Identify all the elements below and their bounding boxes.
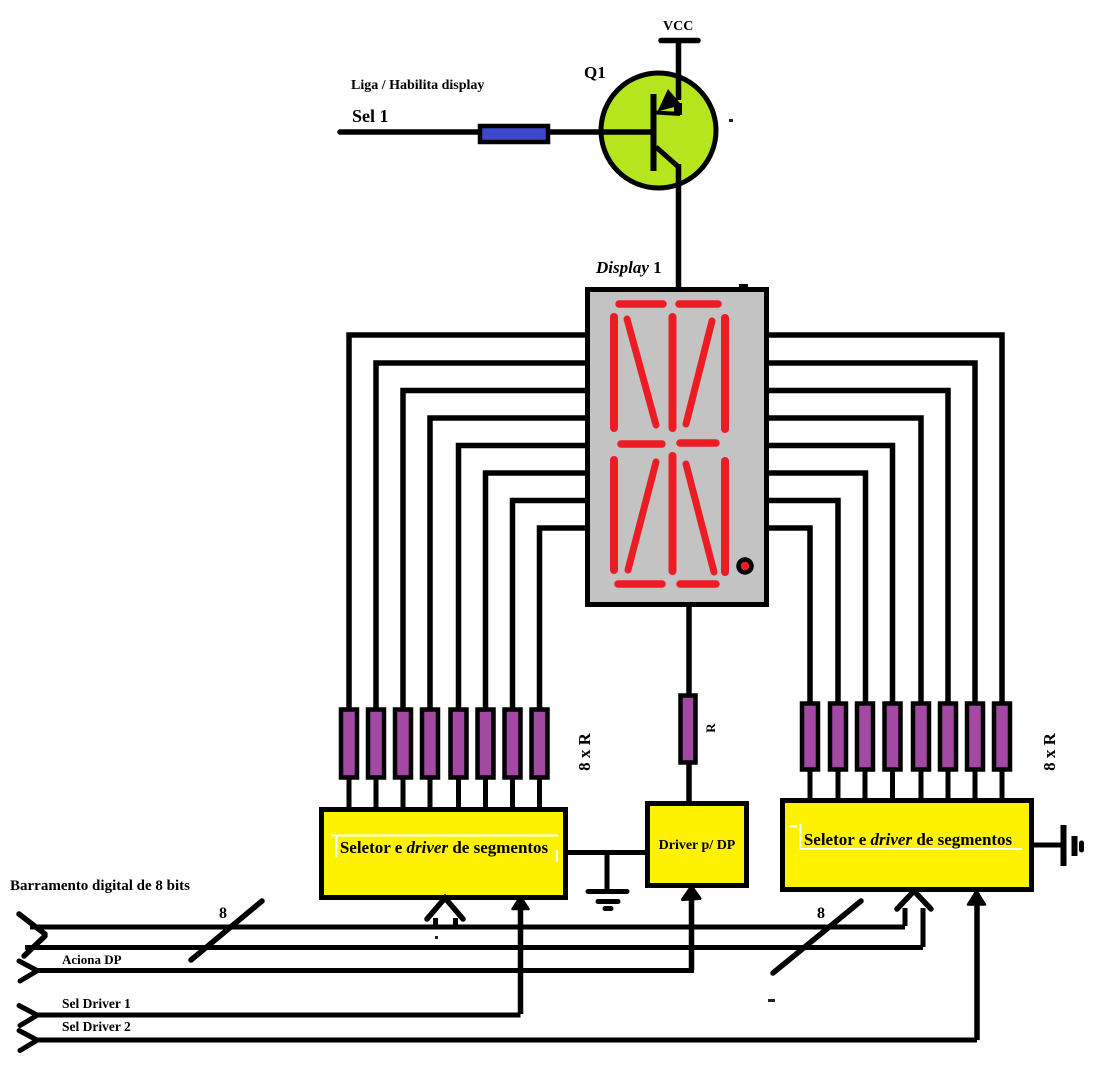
wire display pin R6 (767, 473, 866, 703)
block Seletor e driver de segmentos (right) (783, 801, 1032, 890)
resistor bank left R2 (368, 710, 384, 778)
ground (right, sideways) (1064, 825, 1082, 866)
resistor bank left R3 (395, 710, 411, 778)
arrow Sel Driver 1 into left selector (513, 897, 529, 1015)
label Sel 1 (352, 106, 389, 126)
segment L diagonal bottom-left (628, 462, 656, 570)
display body (588, 290, 767, 605)
wire display pin R7 (767, 501, 838, 704)
wire display pin R2 (767, 363, 975, 703)
segment G2 middle-right (680, 439, 716, 447)
transistor Q1 emitter foot line (656, 113, 680, 115)
label Seletor e driver de segmentos (right) (804, 830, 1013, 849)
svg-text:Sel Driver 1: Sel Driver 1 (62, 996, 131, 1011)
label R (703, 723, 718, 733)
resistor bank right R5 (913, 704, 929, 770)
wire display pin R1 (767, 335, 1002, 703)
label Liga / Habilita display (351, 78, 484, 93)
wire display pin L2 (376, 363, 587, 709)
segment B right vertical top (721, 318, 729, 429)
wire Q1 collector to display (676, 164, 682, 289)
resistor bank left R5 (451, 710, 467, 778)
segment J middle vertical top (669, 317, 677, 428)
label Display 1 (595, 258, 662, 277)
label Sel Driver 2 (62, 1019, 131, 1034)
segment M middle vertical bottom (669, 456, 677, 571)
label Sel Driver 1 (62, 996, 131, 1011)
label Seletor e driver de segmentos (left) (340, 838, 549, 857)
label 8 left (219, 905, 227, 922)
block Driver p/ DP (648, 804, 747, 886)
wire display pin L4 (430, 418, 587, 709)
wire display pin L7 (513, 501, 588, 710)
label 8 right (817, 905, 825, 922)
label Barramento digital de 8 bits (10, 878, 190, 894)
block Seletor e driver de segmentos (left) (322, 810, 566, 898)
right box paste artifact white lines (790, 824, 1022, 850)
wire display pin L1 (349, 335, 587, 709)
transistor Q1 base bar (651, 94, 657, 171)
segment K diagonal top-right (686, 321, 712, 424)
stray dot below left arrow (435, 936, 438, 939)
resistor bank right R4 (885, 704, 901, 770)
svg-text:Seletor e driver de segmentos: Seletor e driver de segmentos (804, 830, 1013, 849)
svg-text:VCC: VCC (663, 19, 693, 34)
wire display DP pin down (686, 605, 692, 697)
svg-text:Sel Driver 2: Sel Driver 2 (62, 1019, 131, 1034)
resistor base (blue) (480, 126, 548, 142)
wire display pin L6 (486, 473, 588, 709)
bus line A (8-bit data) (19, 914, 905, 956)
svg-text:Liga / Habilita display: Liga / Habilita display (351, 78, 484, 93)
segment G1 middle-left (621, 440, 662, 448)
wire right box to ground (1031, 843, 1061, 848)
wires left resistors to selector box (349, 777, 540, 809)
wire VCC to Q1 emitter (676, 42, 682, 100)
label 8 x R left (575, 732, 594, 771)
transistor Q1 body (601, 73, 716, 188)
stray dash left of slash right (768, 999, 775, 1002)
left box paste artifact white lines (331, 836, 558, 863)
stray dash above display corner (739, 284, 748, 287)
label Aciona DP (62, 952, 122, 967)
bus slash right (773, 901, 861, 973)
resistor bank right R6 (940, 704, 956, 770)
wire R to driver box (686, 762, 692, 803)
wire display pin R4 (767, 418, 921, 703)
wires right resistors to selector box (810, 769, 1002, 800)
bus line B (25, 945, 923, 950)
label Q1 (584, 63, 606, 82)
stray dot right of Q1 (729, 119, 733, 122)
segment F left vertical top (610, 317, 618, 428)
bus line D Sel Driver 1 (19, 1006, 521, 1026)
segment D1 bottom-left (618, 580, 662, 588)
wire display pin L8 (540, 528, 588, 709)
segment H diagonal top-left (627, 319, 656, 425)
svg-text:Driver p/ DP: Driver p/ DP (659, 838, 736, 853)
wire display pin R5 (767, 446, 893, 704)
svg-text:Display 1: Display 1 (595, 258, 662, 277)
wire Sel 1 to base resistor (340, 129, 480, 135)
resistor bank right R3 (857, 704, 873, 770)
segment N diagonal bottom-right (686, 464, 714, 572)
wire display pin R3 (767, 391, 948, 704)
wire left box to driver box (566, 850, 648, 855)
VCC supply bar (661, 38, 698, 44)
segment D2 bottom-right (680, 580, 716, 588)
resistor bank right R2 (830, 704, 846, 770)
bus slash left (191, 901, 262, 960)
wire display pin L5 (459, 446, 588, 710)
svg-text:8 x R: 8 x R (1040, 732, 1059, 771)
node VCC label (663, 19, 693, 34)
svg-text:8 x R: 8 x R (575, 732, 594, 771)
resistor R (DP) (681, 696, 696, 763)
arrow Aciona DP into driver box (683, 887, 701, 971)
resistor bank right R7 (967, 704, 983, 770)
wire display pin R8 (767, 528, 810, 703)
svg-text:Aciona DP: Aciona DP (62, 952, 122, 967)
resistor bank left R1 (341, 710, 357, 778)
segment A1 top-left (619, 300, 663, 308)
arrow Sel Driver 2 into right selector (968, 891, 985, 1040)
segment A2 top-right (679, 300, 718, 308)
svg-text:8: 8 (219, 905, 227, 922)
svg-text:8: 8 (817, 905, 825, 922)
resistor bank right R8 (994, 704, 1010, 770)
label Driver p/ DP (659, 838, 736, 853)
resistor bank left R6 (478, 710, 494, 778)
svg-text:Seletor e driver de segmentos: Seletor e driver de segmentos (340, 838, 549, 857)
transistor Q1 collector diagonal (656, 147, 679, 167)
svg-text:R: R (703, 723, 718, 733)
decimal point DP (739, 560, 752, 573)
wire base resistor to Q1 base (550, 129, 652, 135)
arrow bus into right selector (hollow) (897, 891, 931, 947)
bus line E Sel Driver 2 (19, 1031, 977, 1051)
resistor bank left R4 (422, 710, 438, 778)
transistor Q1 emitter arrow (658, 89, 683, 115)
resistor bank left R7 (505, 710, 521, 778)
label 8 x R right (1040, 732, 1059, 771)
svg-text:Q1: Q1 (584, 63, 606, 82)
arrow bus A into left selector (hollow) (427, 898, 463, 926)
bus line C Aciona DP (19, 961, 694, 981)
segment E left vertical bottom (610, 460, 618, 570)
resistor bank right R1 (802, 704, 818, 770)
resistor bank left R8 (532, 710, 548, 778)
segment C right vertical bottom (721, 461, 729, 572)
ground (left) (588, 853, 627, 909)
svg-text:Barramento digital de 8 bits: Barramento digital de 8 bits (10, 878, 190, 894)
wire display pin L3 (403, 391, 587, 710)
svg-text:Sel 1: Sel 1 (352, 106, 389, 126)
